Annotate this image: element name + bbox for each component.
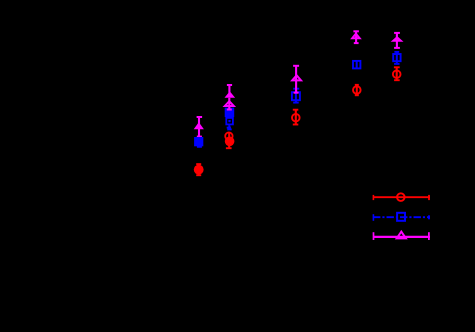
cluster4 blue open square	[353, 61, 360, 69]
cluster2 blue errorbars below	[227, 125, 232, 130]
legend magenta sample line	[373, 232, 430, 240]
legend blue sample line	[373, 214, 430, 221]
cluster2 blue open square	[226, 118, 233, 125]
cluster3 magenta errorbar	[293, 66, 299, 93]
cluster4 red errorbar	[355, 85, 359, 96]
cluster1 blue filled square	[194, 137, 203, 146]
cluster5 red errorbar	[394, 67, 400, 80]
legend red sample line	[373, 195, 430, 200]
cluster2 blue center dot	[228, 120, 230, 122]
cluster3 red errorbar	[293, 110, 299, 125]
cluster4 blue errorbar	[356, 61, 358, 69]
cluster4 magenta errorbar	[353, 31, 359, 43]
cluster1 magenta filled triangle	[194, 122, 204, 129]
cluster2 red open circle	[225, 132, 232, 139]
cluster2 magenta open triangle	[225, 101, 234, 106]
cluster3 magenta open triangle	[292, 75, 301, 80]
cluster5 red open circle	[393, 70, 401, 78]
cluster3 blue errorbar	[293, 89, 299, 103]
cluster2 magenta filled triangle	[225, 91, 236, 98]
legend red open circle	[397, 193, 405, 201]
legend magenta open triangle	[397, 232, 406, 239]
cluster2 red filled circle	[225, 137, 235, 147]
cluster2 magenta errorbar upper	[227, 85, 232, 93]
cluster1 red errorbar	[196, 164, 201, 175]
cluster4 red open circle	[353, 86, 361, 94]
cluster2 blue filled square	[225, 108, 235, 117]
cluster2 magenta errorbar lower	[227, 98, 232, 110]
cluster5 magenta errorbar	[394, 33, 400, 48]
cluster3 blue open square	[292, 92, 300, 100]
cluster1 red filled circle	[194, 165, 204, 175]
cluster1 magenta errorbar	[197, 117, 203, 137]
cluster5 blue errorbar	[394, 52, 399, 64]
cluster1 blue errorbar	[197, 138, 202, 147]
cluster5 blue open square	[393, 54, 400, 61]
cluster5 magenta open triangle	[393, 37, 401, 40]
cluster4 magenta open triangle	[352, 34, 360, 39]
cluster2 red errorbar	[226, 132, 232, 149]
cluster3 red open circle	[292, 114, 300, 122]
legend blue open square	[397, 213, 405, 221]
